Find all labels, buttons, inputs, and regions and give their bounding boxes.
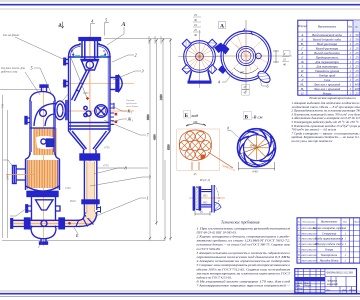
svg-text:Труба циркуляционная: Труба циркуляционная [315, 237, 344, 241]
svg-text:25: 25 [355, 55, 359, 59]
packing fill upper [33, 128, 57, 155]
downpipe walls [84, 160, 96, 214]
svg-text:Б: Б [75, 233, 79, 238]
leader poz6 [60, 94, 68, 104]
svg-text:5240: 5240 [6, 174, 9, 180]
svg-text:А: А [300, 33, 303, 37]
svg-text:25: 25 [194, 13, 198, 17]
svg-text:1: 1 [342, 292, 343, 294]
svg-text:25: 25 [355, 60, 359, 64]
pump white blob [36, 136, 54, 149]
svg-text:выпарной: выпарной [327, 283, 338, 286]
svg-text:25: 25 [355, 46, 359, 50]
swirler orange spokes [244, 135, 269, 161]
connecting nozzle to big circle [214, 43, 226, 54]
right dim vertical 4 [170, 38, 172, 241]
right stub d [110, 113, 114, 117]
support legs [189, 71, 211, 81]
leader pozB [73, 226, 78, 234]
svg-text:Отбор проб: Отбор проб [319, 73, 336, 77]
detail dim below [195, 211, 210, 216]
svg-text:16: 16 [194, 23, 198, 27]
left big nozzle flange line [13, 166, 15, 184]
svg-text:Люк-лаз с крышкой: Люк-лаз с крышкой [313, 81, 341, 86]
svg-text:д: д [227, 127, 229, 131]
svg-text:50: 50 [355, 37, 359, 41]
left circle grey centerlines [178, 56, 222, 58]
svg-text:Б: Б [300, 37, 303, 41]
right dim labels [282, 51, 290, 67]
leader K1 [112, 106, 127, 111]
leader text2 [25, 72, 40, 95]
leader poz1 [96, 198, 146, 216]
shell ring line 2 [69, 125, 111, 127]
svg-text:4100: 4100 [154, 134, 157, 140]
column flange ring 1 [27, 191, 58, 193]
funnel circle [86, 61, 93, 68]
swirler inner circle [244, 135, 270, 161]
porthole cross 1 [97, 107, 105, 115]
svg-text:Разраб.: Разраб. [294, 281, 302, 284]
svg-text:Т.контр.: Т.контр. [295, 288, 303, 290]
left circle hub [198, 55, 201, 58]
red drain dot [68, 222, 71, 225]
left stub nozzle [27, 118, 31, 123]
porthole small circle b [84, 113, 87, 116]
svg-text:Ø25: Ø25 [203, 195, 208, 198]
red mark 1 [115, 113, 118, 116]
svg-text:Для манометра: Для манометра [315, 64, 338, 68]
red mark inner [86, 97, 89, 100]
downpipe coupling [82, 200, 99, 204]
svg-text:Листов: Листов [348, 290, 356, 292]
right small stub c [110, 103, 114, 109]
bottom pipe interior fill [12, 221, 80, 226]
left port nozzle into vessel [65, 100, 67, 120]
svg-text:ФЮРА.0662.005: ФЮРА.0662.005 [301, 249, 317, 252]
flange plate 1 [193, 186, 196, 210]
svg-text:7 Антикоррозионное покрытие на: 7 Антикоррозионное покрытие наружных пов… [197, 283, 291, 288]
porthole small circle a [84, 106, 87, 109]
svg-text:Ø450: Ø450 [250, 144, 257, 148]
top nozzle flange [79, 38, 101, 41]
svg-text:50: 50 [355, 33, 359, 37]
title block texts [294, 272, 355, 295]
right big nozzle flange [116, 76, 119, 92]
right stub e [110, 121, 114, 125]
big circle orange spokes [222, 32, 270, 80]
bottom right stub [56, 206, 61, 211]
svg-text:25: 25 [355, 51, 359, 55]
right dim vertical 1 [149, 40, 151, 241]
swirler outer ring [238, 129, 276, 167]
diameter line [239, 141, 275, 155]
shell ring line 3 [69, 128, 111, 130]
lug SW [182, 65, 191, 74]
svg-text:Сепаратор: Сепаратор [322, 231, 337, 235]
bottom pipe flange pair 2 [59, 218, 61, 229]
svg-text:5: 5 [31, 66, 33, 71]
header fill col4 [353, 20, 360, 32]
left flag leader [228, 131, 239, 138]
sheet top edge grey line [0, 0, 360, 2]
svg-text:5: 5 [105, 18, 107, 23]
bottom stub [192, 162, 199, 170]
svg-text:Опора: Опора [325, 248, 334, 252]
svg-text:40: 40 [283, 63, 287, 67]
leader bottom left [10, 208, 27, 216]
svg-text:ИзМ: ИзМ [69, 200, 76, 203]
column shell lower wide [26, 159, 60, 190]
leader poz4 [91, 24, 96, 37]
column inner walls [32, 101, 54, 152]
bottom inner grey line [0, 290, 360, 292]
svg-text:45: 45 [194, 172, 198, 176]
bottom overall dim line [2, 240, 165, 242]
A box label [219, 22, 226, 29]
svg-text:Техническая характеристика п: Техническая характеристика по [309, 96, 356, 100]
top dim horizontal [104, 38, 171, 40]
svg-text:4: 4 [218, 80, 220, 85]
elbow to downpipe [78, 212, 97, 227]
tube circle 3 [180, 141, 190, 151]
funnel rim band [81, 59, 99, 61]
leader poz5top [105, 23, 110, 36]
column top dome [30, 92, 55, 102]
column bottom shell [32, 197, 56, 228]
gasket grey hatch [196, 188, 199, 209]
svg-text:Иванов: Иванов [303, 282, 311, 284]
svg-text:Ø6: Ø6 [194, 120, 198, 124]
blue filled header band [295, 277, 325, 281]
В-В label [244, 112, 252, 120]
svg-text:Предохранитель: Предохранитель [315, 55, 339, 59]
sheet bottom edge grey line [0, 296, 360, 298]
dome weld line [69, 56, 111, 58]
downpipe inner lines [87, 160, 94, 213]
top tick [243, 29, 253, 36]
svg-text:А: А [220, 24, 224, 30]
svg-text:д: д [59, 22, 62, 29]
svg-text:Лит.: Лит. [325, 290, 331, 292]
drain neck [41, 239, 46, 242]
packing fill lower [28, 160, 59, 188]
column top nozzle [42, 87, 47, 92]
column shell upper [30, 100, 55, 155]
svg-text:Насадка Инта: Насадка Инта [319, 258, 339, 262]
right vertical strip [212, 185, 214, 213]
big circle grey centerlines [245, 20, 247, 92]
Б-Б label [184, 111, 191, 119]
leader к [258, 74, 266, 86]
svg-text:Н.контр.: Н.контр. [294, 292, 304, 294]
nozzle row orange centerline [62, 82, 134, 84]
svg-text:Кол: Кол [342, 221, 347, 224]
pipe tee fitting [41, 220, 47, 226]
svg-text:№: № [297, 221, 300, 224]
small nozzle right of hub [256, 53, 262, 59]
svg-text:В: В [245, 115, 249, 121]
elbow port inner ellipse [57, 104, 63, 117]
svg-text:5600: 5600 [147, 114, 150, 120]
svg-text:Б: Б [185, 113, 189, 119]
lug SE [208, 65, 217, 74]
leader poz5 [34, 68, 52, 95]
lug NE [182, 39, 217, 74]
tube circle 6 [185, 150, 195, 160]
svg-text:3: 3 [142, 69, 144, 74]
elbow miter lines [76, 213, 97, 227]
verticals left grid [297, 269, 299, 294]
svg-text:ФЮРА.0662.006: ФЮРА.0662.006 [301, 254, 317, 257]
right dim vertical 3 [162, 38, 164, 200]
svg-text:Люк-лаз с крышкой: Люк-лаз с крышкой [313, 86, 341, 91]
tube circle 7 [196, 150, 206, 160]
internal funnel cup [81, 60, 99, 71]
quadrant fill [201, 155, 206, 160]
svg-text:1500: 1500 [65, 187, 71, 190]
svg-text:25: 25 [194, 28, 198, 32]
svg-text:Пров.: Пров. [294, 285, 301, 287]
support base [188, 81, 212, 84]
right dim closing vertical [164, 160, 166, 241]
right nozzle dished cap [119, 76, 122, 92]
svg-text:25: 25 [355, 64, 359, 68]
left nozzle orange centerline [6, 174, 34, 176]
Б-Б frame [177, 129, 220, 171]
right big nozzle pipe [110, 78, 116, 90]
leader x [222, 72, 233, 82]
packed bed bottom curve [26, 186, 60, 191]
big circle outer ring [221, 31, 271, 81]
svg-text:Слив: Слив [324, 78, 331, 82]
shell ring line 1 [69, 122, 111, 124]
svg-text:Е: Е [300, 55, 303, 59]
angle arc label [234, 68, 258, 73]
svg-text:25: 25 [283, 58, 287, 62]
svg-text:Резерв: Резерв [322, 91, 332, 95]
shoulder to wider shell [26, 152, 60, 159]
lug NW [182, 39, 191, 48]
downpipe interior fill [86, 162, 95, 218]
shell porthole [95, 105, 108, 118]
svg-text:Наименование: Наименование [317, 25, 337, 29]
svg-text:Наименование: Наименование [320, 221, 338, 224]
X crosses [181, 133, 209, 158]
diagonal leader [208, 152, 233, 168]
svg-text:4: 4 [91, 19, 93, 24]
svg-text:400: 400 [355, 87, 360, 91]
teal strip left [75, 55, 81, 57]
svg-text:масс.Факел: масс.Факел [125, 105, 138, 108]
hatched manhole bottom right [256, 69, 272, 85]
vessel dome [69, 43, 111, 57]
svg-text:ФЮРА.066211.012 ВО: ФЮРА.066211.012 ВО [327, 272, 353, 275]
svg-text:Выход briquette воды: Выход briquette воды [313, 37, 342, 41]
svg-text:6: 6 [267, 84, 269, 89]
dim arrow ticks [149, 39, 172, 239]
detail orange centerline [189, 197, 225, 199]
vessel orange centerline [89, 36, 91, 220]
bottom dim [238, 162, 275, 171]
svg-text:Штуцер подачи смеси: Штуцер подачи смеси [314, 242, 344, 246]
flange plate 2 [199, 186, 202, 210]
left big nozzle flange [13, 166, 17, 184]
svg-text:М₁: М₁ [299, 82, 304, 86]
left circle outer ring [184, 41, 216, 73]
bolts centerline ticks [196, 187, 199, 210]
leader left nozzle [3, 160, 14, 168]
svg-text:Прим: Прим [353, 222, 360, 224]
tube circle 2 [196, 132, 206, 142]
leader A-arrow [107, 27, 124, 45]
svg-text:вид: вид [192, 113, 199, 118]
dome inner arc [70, 46, 108, 57]
leader gas flare [15, 37, 65, 60]
svg-text:Для термометра: Для термометра [314, 60, 339, 64]
left dim line 2 [7, 110, 9, 238]
svg-text:Выход конденсата: Выход конденсата [314, 51, 340, 55]
bottom left stub [27, 206, 32, 211]
svg-text:Колпак аппарата горелки: Колпак аппарата горелки [312, 226, 346, 230]
porthole cross 2 [97, 107, 105, 115]
svg-text:Кол: Кол [347, 26, 353, 29]
svg-text:Вход аммиачной воды: Вход аммиачной воды [312, 32, 343, 37]
svg-text:4750: 4750 [104, 147, 110, 150]
svg-text:А: А [121, 22, 126, 28]
svg-text:ФЮРА.0662.002: ФЮРА.0662.002 [301, 232, 317, 235]
svg-text:Технические требования: Технические требования [221, 221, 260, 225]
left stub upper [65, 60, 68, 64]
leader poz3 [113, 71, 141, 80]
red mark 2 [115, 121, 118, 124]
elbow porthole circle [40, 110, 47, 117]
left stub mid [65, 82, 68, 86]
bottom pipe flange pair 1 [25, 218, 27, 229]
svg-text:Ø32: Ø32 [203, 202, 208, 205]
leader Zh [112, 119, 127, 122]
left flange between circles [220, 45, 230, 55]
svg-text:6000: 6000 [83, 92, 89, 95]
lifting lug left [72, 53, 74, 56]
leader poz7 [104, 120, 146, 135]
packed bed top line [30, 127, 55, 129]
svg-text:Штуцер: Штуцер [297, 25, 308, 28]
top dim arc [186, 124, 206, 126]
rotated dim numbers [147, 94, 171, 150]
svg-text:Указатель уровня: Указатель уровня [315, 69, 340, 73]
porthole row orange centerline [62, 110, 134, 112]
left circle ring 2 [186, 43, 213, 70]
svg-text:4-80: 4-80 [252, 170, 258, 174]
top frame blue line [0, 4, 360, 6]
column internal elbow [34, 104, 55, 127]
svg-text:Газ на факел: Газ на факел [2, 33, 20, 37]
leader drain [38, 240, 44, 248]
bottom horizontal pipe [12, 220, 80, 226]
pipe walls [201, 190, 212, 207]
left big nozzle pipe [16, 169, 26, 180]
horizontals left grid [295, 271, 325, 273]
drain flange [40, 242, 48, 244]
pump body [47, 139, 54, 147]
svg-text:-В см: -В см [252, 115, 263, 120]
internal funnel [36, 200, 54, 210]
svg-text:ФЮРА.0662.007: ФЮРА.0662.007 [301, 259, 317, 262]
svg-text:Петров: Петров [303, 285, 311, 287]
neck flange pair [80, 154, 100, 157]
svg-text:25: 25 [355, 69, 359, 73]
tube circle 4 [190, 141, 200, 151]
shell curve dashed [215, 185, 220, 213]
svg-text:25: 25 [355, 42, 359, 46]
svg-text:25: 25 [355, 73, 359, 77]
bottom frame blue line [0, 293, 360, 295]
lifting lug right [104, 53, 106, 56]
column top nozzle flange [40, 85, 48, 87]
svg-text:Завихритель: Завихритель [321, 253, 338, 257]
svg-text:25: 25 [355, 91, 359, 95]
svg-text:4750: 4750 [103, 165, 109, 168]
cluster outline [179, 130, 211, 160]
left stub flange [25, 117, 27, 125]
big circle hub ring [241, 51, 251, 61]
dim stack above left circle [193, 13, 201, 37]
svg-text:Г: Г [300, 46, 303, 50]
svg-text:Ж₁: Ж₁ [127, 117, 134, 122]
small ringed circle [86, 111, 91, 116]
svg-text:2: 2 [135, 53, 137, 58]
svg-text:740: 740 [1, 103, 4, 108]
column bottom head [31, 228, 56, 239]
vessel shell inner walls [70, 57, 108, 131]
right side lines [325, 276, 357, 278]
cone inner line [72, 131, 107, 149]
elbow interior fill [78, 213, 97, 226]
internal swirl vane [72, 71, 90, 102]
swirler vanes [239, 129, 275, 166]
leader poz8 [94, 168, 124, 174]
svg-text:К₁: К₁ [127, 109, 133, 114]
bottom left stub flange [26, 205, 28, 212]
column flange ring 2 [27, 195, 58, 197]
svg-text:6250: 6250 [168, 144, 171, 150]
svg-text:Выход раствора: Выход раствора [316, 46, 339, 50]
svg-text:рабочего газа: рабочего газа [0, 70, 18, 73]
right dim vertical 2 [156, 40, 158, 225]
big circle mid ring [236, 46, 255, 65]
svg-text:В₁: В₁ [301, 42, 304, 46]
vessel shell [69, 56, 111, 131]
left dim line 1 [2, 95, 4, 238]
svg-text:40: 40 [194, 18, 198, 22]
svg-text:2450: 2450 [160, 94, 163, 100]
lower-left flange bit [218, 66, 227, 75]
column orange centerline [43, 84, 45, 246]
left top dim line [0, 88, 42, 90]
grey internal curve [71, 58, 87, 98]
svg-text:25: 25 [355, 78, 359, 82]
pump circle [41, 139, 46, 144]
left circle orange spokes [185, 42, 214, 71]
elbow port outer ellipse [55, 101, 66, 120]
svg-text:Лист: Лист [341, 290, 347, 292]
big circle ring 2 [223, 33, 269, 79]
cone dim line [97, 167, 148, 169]
bottom pipe orange centerline [10, 222, 92, 224]
svg-text:Обозначение: Обозначение [302, 221, 315, 224]
tube circle 5 [201, 141, 211, 151]
